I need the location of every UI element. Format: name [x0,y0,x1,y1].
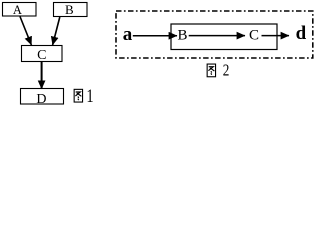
svg-text:A: A [13,3,22,17]
svg-text:D: D [36,92,46,107]
box C [22,46,63,62]
wire arrow a to B [133,35,177,37]
svg-text:B: B [177,28,187,44]
svg-text:C: C [249,28,259,44]
dashed frame of figure 2 [116,11,313,58]
label figure 2 [207,64,215,77]
svg-text:d: d [296,23,307,44]
box A [3,3,37,17]
svg-text:a: a [123,24,133,45]
wire arrow B to C [189,35,245,37]
svg-text:1: 1 [86,85,93,106]
label figure 1 [74,89,82,102]
inner box of figure 2 [171,24,277,50]
wire arrow B to C [53,17,60,45]
svg-text:2: 2 [223,62,230,80]
wire arrow C to d [262,35,290,37]
box D [21,89,64,105]
svg-text:C: C [37,48,46,63]
box B [54,3,88,17]
wire arrow A to C [20,17,31,46]
wire arrow C to D [41,62,43,89]
svg-text:B: B [65,2,74,17]
